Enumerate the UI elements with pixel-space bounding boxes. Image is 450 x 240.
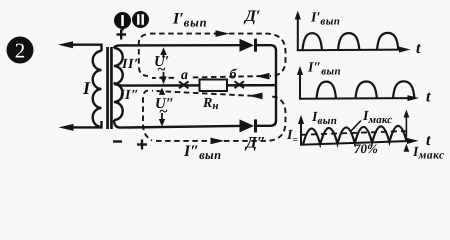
arrow on upper return dashed leftward [256, 73, 270, 80]
plus sign bottom terminal [137, 140, 147, 150]
secondary winding II double-prime [114, 84, 123, 120]
node a cross mark [179, 82, 189, 89]
terminal marker disc II [132, 11, 149, 28]
wire primary top lead with left arrow [58, 41, 102, 51]
graph 1 axes [295, 11, 411, 53]
voltage arrow U double-prime [159, 88, 165, 127]
node b cross mark [235, 81, 245, 88]
wire middle rail center tap to node b [114, 83, 276, 86]
figure number badge 2 [7, 37, 34, 64]
svg-text:t: t [426, 132, 431, 149]
wire right edge bottom to middle [257, 85, 276, 125]
svg-text:I: I [82, 78, 91, 98]
transformer primary winding I [93, 51, 102, 127]
graph 3 full-wave ripple curve [303, 126, 407, 145]
graph 1 half-wave pulses [303, 33, 399, 50]
voltage arrow U prime [160, 47, 166, 84]
svg-text:Д″: Д″ [244, 135, 266, 152]
wire primary bottom lead with left arrow [59, 121, 102, 131]
arrow on lower return dashed leftward [249, 93, 263, 100]
diode D double-prime [240, 119, 258, 132]
svg-text:2: 2 [15, 39, 26, 63]
svg-text:I″вып: I″вып [307, 61, 341, 78]
arrow on top dashed line rightward [216, 30, 230, 37]
secondary winding II prime [114, 48, 123, 84]
svg-text:Rн: Rн [202, 96, 218, 112]
graph 2 half-wave pulses [317, 81, 415, 98]
svg-text:I′вып: I′вып [310, 11, 340, 28]
graph 3 dashed 70 percent level [301, 131, 407, 135]
wire bottom rail [114, 120, 240, 128]
svg-text:t: t [426, 89, 431, 106]
svg-text:I′вып: I′вып [172, 11, 207, 30]
resistor R_n [200, 80, 228, 92]
terminal marker disc I [114, 12, 131, 31]
svg-text:II′: II′ [121, 57, 139, 72]
graph 2 axes [297, 66, 419, 101]
plus sign top terminal [117, 30, 127, 40]
minus sign bottom terminal [113, 140, 122, 142]
I maks measuring double arrow [404, 110, 410, 152]
svg-text:II″: II″ [118, 88, 139, 103]
arrow on bottom dashed line rightward [211, 138, 225, 145]
diode D prime [240, 39, 258, 52]
wire top rail [114, 45, 240, 48]
svg-text:U″~: U″~ [155, 96, 174, 120]
svg-text:t: t [416, 40, 421, 57]
svg-text:Iмакс: Iмакс [362, 109, 392, 126]
svg-text:а: а [181, 68, 188, 83]
svg-text:70%: 70% [354, 141, 378, 156]
graph 3 axes [298, 115, 419, 145]
svg-text:Iвып: Iвып [311, 110, 337, 127]
dashed current loop top [139, 34, 286, 78]
svg-text:б: б [230, 68, 238, 83]
svg-text:I=: I= [286, 128, 298, 145]
wire right edge top to middle [257, 45, 276, 85]
dashed current loop bottom [143, 91, 286, 141]
svg-text:U′~: U′~ [154, 54, 169, 78]
svg-text:I″вып: I″вып [183, 143, 221, 162]
transformer core [106, 47, 113, 129]
svg-text:Д′: Д′ [243, 8, 260, 25]
